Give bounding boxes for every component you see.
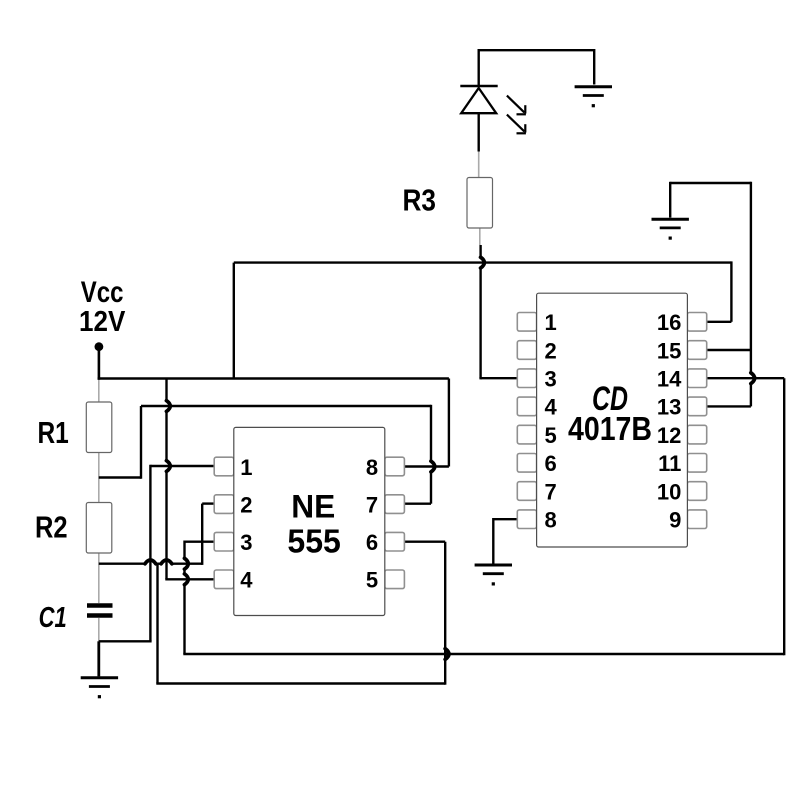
svg-text:3: 3 — [545, 367, 557, 392]
svg-text:C1: C1 — [39, 602, 67, 634]
svg-text:14: 14 — [657, 367, 682, 392]
svg-text:R1: R1 — [38, 415, 69, 450]
svg-text:2: 2 — [545, 338, 557, 363]
svg-text:R2: R2 — [35, 510, 68, 545]
svg-text:10: 10 — [657, 479, 681, 504]
svg-text:555: 555 — [287, 524, 341, 561]
svg-text:8: 8 — [545, 508, 557, 533]
svg-text:12V: 12V — [79, 306, 125, 338]
svg-text:2: 2 — [240, 492, 252, 517]
svg-text:15: 15 — [657, 338, 681, 363]
svg-text:1: 1 — [545, 310, 557, 335]
svg-text:1: 1 — [240, 455, 252, 480]
svg-text:11: 11 — [658, 451, 681, 476]
svg-text:5: 5 — [545, 423, 557, 448]
svg-text:NE: NE — [291, 489, 335, 525]
svg-text:Vcc: Vcc — [81, 276, 124, 309]
svg-text:16: 16 — [657, 310, 681, 335]
svg-text:3: 3 — [240, 530, 252, 555]
svg-text:9: 9 — [669, 508, 681, 533]
svg-text:12: 12 — [657, 423, 681, 448]
svg-text:6: 6 — [366, 530, 378, 555]
svg-text:4: 4 — [545, 395, 558, 420]
svg-text:5: 5 — [366, 568, 378, 593]
svg-text:R3: R3 — [403, 183, 437, 218]
svg-text:13: 13 — [657, 395, 681, 420]
svg-text:7: 7 — [545, 479, 557, 504]
svg-text:6: 6 — [545, 451, 557, 476]
svg-text:8: 8 — [366, 455, 378, 480]
svg-text:7: 7 — [366, 492, 378, 517]
svg-text:4: 4 — [240, 568, 253, 593]
svg-text:4017B: 4017B — [568, 411, 652, 448]
